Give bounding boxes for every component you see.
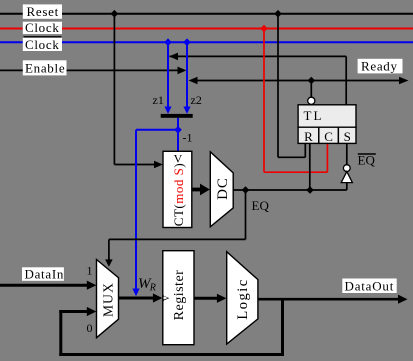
label box inverted Clock with overline [23,38,62,51]
svg-text:C: C [324,129,333,144]
wire Enable line [0,69,179,71]
wire MUX output to Register (thick) [119,297,155,300]
wire TL-output to z1 (arrow left) [170,55,347,57]
svg-text:TL: TL [304,108,324,123]
counter CT(mod S) [163,151,192,227]
svg-text:Clock: Clock [25,20,60,35]
node junction on Ready line [308,77,316,85]
wire Reset drop to CT input [113,14,115,165]
wire Ready junction down to TL bubble [310,81,312,98]
svg-text:Logic: Logic [235,278,251,319]
wire z1 vertical (blue) [167,42,169,107]
svg-text:Register: Register [172,270,187,321]
svg-text:Enable: Enable [25,61,65,76]
node EQ junction left [242,186,250,194]
label box Reset [23,4,62,18]
svg-text:MUX: MUX [101,282,116,317]
svg-text:0: 0 [87,321,93,335]
inversion bubble on TL top [308,97,315,104]
svg-text:EQ: EQ [358,153,376,168]
register block [163,251,194,345]
node EQ junction right [306,186,314,194]
label box Clock [23,22,62,34]
trigger TL box [298,105,356,127]
svg-text:CT(mod S): CT(mod S) [171,163,186,226]
wire z2 vertical (blue) [186,42,188,107]
svg-text:DataIn: DataIn [25,267,65,282]
node Reset junction x278 [274,10,282,18]
svg-text:1: 1 [87,263,93,277]
svg-text:S: S [344,129,351,144]
node Clock junction x264 (red) [260,25,268,33]
svg-text:-1: -1 [183,131,193,145]
wire blue branch down to W_R arrow [135,130,137,290]
wire bar output (blue) [177,118,179,152]
synchronizer bar [161,114,193,118]
label box DataOut [342,279,396,294]
wire Reset bus line [0,13,413,15]
label box Enable [23,60,67,75]
label box DataIn [22,267,64,281]
node Reset junction x114 [111,10,119,18]
wire inverted Clock bus line (blue) [0,41,413,43]
pin cell S [338,127,356,143]
svg-text:DataOut: DataOut [345,278,395,293]
wire bottom feedback run (thick) [59,353,284,356]
wire Logic to DataOut (thick) [258,298,399,301]
wire DataOut drop to bottom (thick) [281,299,284,356]
svg-text:V: V [161,294,171,301]
wire R input down to EQ line [309,143,311,190]
node blue junction z1 [164,38,172,46]
wire Ready line with arrow to z2 [197,80,404,82]
wire Clock bus line (red) [0,28,413,30]
label box Ready [358,59,403,74]
pin cell C [319,127,339,143]
wire red clock to C input of TL [263,29,265,173]
wire select path EQ to MUX [245,190,247,239]
wire blue branch left [136,129,178,131]
wire DataIn to MUX (thick) [0,284,88,287]
wire S input to inverter bubble [346,143,348,165]
multiplexer MUX [97,260,119,338]
svg-text:Clock: Clock [25,37,60,52]
pin cell R [298,127,319,143]
wire EQ line from DC to inverter [233,189,347,191]
svg-text:Reset: Reset [27,4,59,19]
inverter EQ-bar bubble [343,165,350,172]
svg-text:Ready: Ready [361,59,398,74]
decoder DC [210,152,233,227]
logic block [227,252,258,344]
wire feedback bottom to MUX 0 input (thick) [59,310,62,356]
inverter EQ-bar triangle [341,172,352,183]
svg-text:DC: DC [215,177,231,200]
bus CT to DC (thick arrow) [192,188,201,192]
svg-text:z1: z1 [153,93,164,107]
wire Register to Logic (thick) [194,297,218,300]
svg-text:z2: z2 [191,93,202,107]
svg-text:R: R [149,283,156,294]
wire Reset drop to R input of TL [277,14,279,158]
node blue junction z2 [183,38,191,46]
node blue diamond junction [174,126,182,134]
svg-text:R: R [304,129,313,144]
svg-text:EQ: EQ [252,198,270,213]
